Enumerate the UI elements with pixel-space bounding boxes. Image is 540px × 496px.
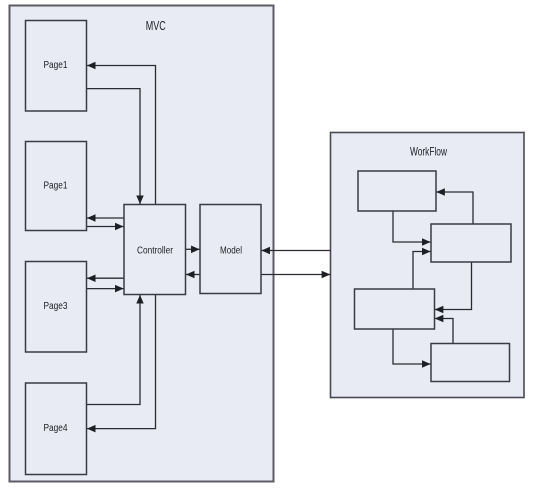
wire W3 to W4 bbox=[393, 330, 431, 365]
wire W4 to W3 bbox=[435, 319, 453, 344]
wire W3 to W2 bbox=[413, 252, 431, 289]
box W1 bbox=[358, 171, 436, 211]
wire Page4 to Controller bbox=[87, 295, 140, 405]
wire Controller to Model bbox=[186, 248, 200, 250]
wire Model to Controller bbox=[186, 274, 200, 276]
box Page1 (second) bbox=[26, 142, 87, 231]
wire Page1 to Controller bbox=[87, 89, 140, 204]
container MVC bbox=[10, 6, 274, 482]
box W4 bbox=[431, 344, 510, 382]
container WorkFlow bbox=[331, 133, 525, 398]
svg-text:MVC: MVC bbox=[146, 19, 166, 33]
box Page3 bbox=[26, 262, 87, 353]
wire Page3 to Controller bbox=[87, 288, 124, 290]
wire W2 to W1 bbox=[436, 192, 473, 224]
box W2 bbox=[431, 224, 511, 262]
wire Page1 (second) to Controller bbox=[87, 226, 124, 228]
svg-text:Page1: Page1 bbox=[44, 59, 68, 71]
wire WorkFlow to Model bbox=[261, 250, 330, 252]
box Model bbox=[200, 205, 261, 294]
box W3 bbox=[355, 289, 435, 329]
wire Controller to Page1 (top) bbox=[87, 66, 156, 205]
wire Controller to Page1 (second) bbox=[87, 217, 124, 219]
box Page1 (top) bbox=[26, 21, 87, 112]
wire Model to WorkFlow bbox=[262, 274, 331, 276]
svg-text:Model: Model bbox=[220, 244, 242, 256]
svg-text:Page4: Page4 bbox=[44, 422, 68, 434]
wire W2 to W3 bbox=[435, 263, 472, 310]
wire W1 to W2 bbox=[393, 212, 431, 243]
box Controller bbox=[124, 205, 186, 295]
box Page4 bbox=[26, 383, 87, 475]
svg-text:Page1: Page1 bbox=[44, 179, 68, 191]
svg-text:WorkFlow: WorkFlow bbox=[410, 145, 447, 159]
svg-text:Page3: Page3 bbox=[44, 300, 68, 312]
svg-text:Controller: Controller bbox=[137, 245, 173, 257]
wire Controller to Page3 bbox=[87, 277, 124, 279]
wire Controller to Page4 bbox=[87, 295, 156, 429]
